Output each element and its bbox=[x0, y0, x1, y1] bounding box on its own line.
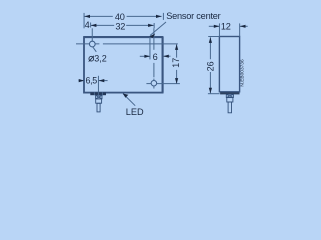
svg-text:6: 6 bbox=[153, 52, 158, 62]
svg-text:12: 12 bbox=[221, 22, 231, 32]
svg-text:Sensor center: Sensor center bbox=[166, 11, 220, 21]
svg-text:6,5: 6,5 bbox=[85, 76, 97, 86]
svg-text:26: 26 bbox=[205, 61, 215, 71]
svg-text:40: 40 bbox=[115, 12, 125, 22]
svg-text:4: 4 bbox=[85, 20, 90, 30]
svg-text:3,2: 3,2 bbox=[94, 54, 107, 64]
svg-text:32: 32 bbox=[115, 22, 125, 32]
svg-text:17: 17 bbox=[171, 58, 181, 68]
svg-text:LED: LED bbox=[126, 107, 144, 117]
svg-text:N.EB003736: N.EB003736 bbox=[240, 59, 246, 87]
